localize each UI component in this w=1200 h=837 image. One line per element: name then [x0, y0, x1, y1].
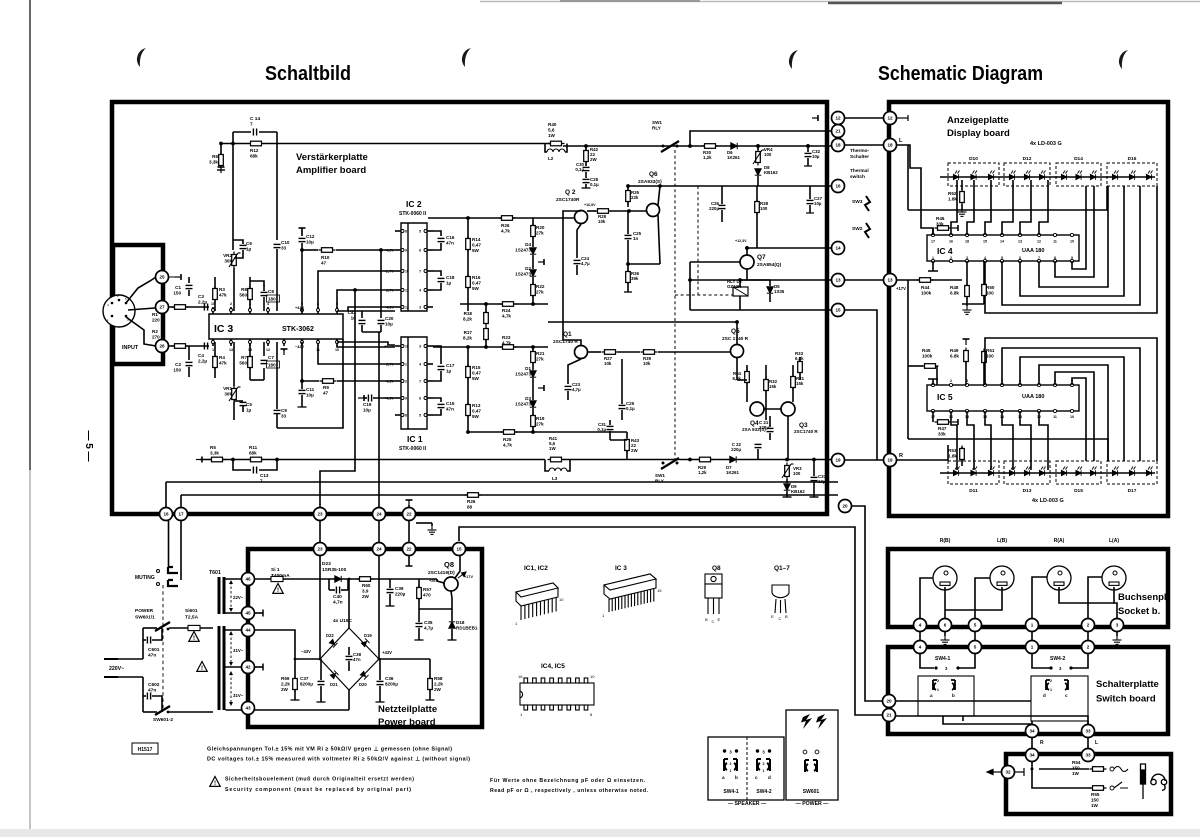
wire C40 left [328, 579, 330, 590]
junction [300, 379, 304, 383]
wire [587, 210, 596, 212]
resistor R44 [917, 278, 934, 283]
power sw contact [803, 750, 807, 754]
node 12 display [884, 112, 897, 125]
wire [907, 280, 909, 366]
svg-text:1: 1 [405, 363, 407, 367]
svg-text:8: 8 [405, 414, 407, 418]
wire [769, 433, 771, 440]
wire C602 right [152, 696, 162, 712]
svg-text:32: 32 [1005, 770, 1011, 775]
SW4-1 box [918, 676, 974, 716]
svg-text:STK-3062: STK-3062 [282, 326, 314, 333]
capacitor C20 electrolytic [378, 320, 385, 323]
wire [807, 158, 809, 166]
wire [429, 659, 431, 678]
IC4 pin 9 [1070, 259, 1073, 262]
wire [609, 420, 611, 425]
svg-text:5: 5 [974, 645, 977, 650]
LED in D13 [1024, 467, 1030, 476]
LED in D16 [1146, 171, 1152, 180]
node 1 socket [1026, 619, 1039, 632]
node 46 [242, 573, 255, 586]
wire IC5 maze [1002, 348, 1140, 461]
svg-text:R486.8k: R486.8k [950, 285, 959, 296]
svg-text:R(B): R(B) [940, 538, 951, 544]
wire Q7 base [690, 261, 740, 263]
wire to VR2 [232, 144, 234, 251]
potentiometer VR2 [232, 252, 237, 269]
svg-text:4: 4 [984, 256, 986, 260]
film crescent mark 2 [462, 48, 471, 67]
wire [769, 416, 771, 427]
junction [231, 458, 235, 462]
svg-text:Q3: Q3 [799, 422, 808, 429]
svg-text:Q6: Q6 [649, 171, 658, 178]
capacitor C40 [336, 587, 339, 594]
switch board frame [888, 647, 1168, 734]
wire [907, 366, 909, 439]
terminal mid diode 2 [538, 385, 544, 391]
wire DIN to 25 [126, 277, 156, 303]
IC2 pin 12 [395, 306, 401, 308]
switch SW4-1 left [724, 759, 728, 771]
wire C1 top [188, 277, 190, 283]
svg-text:C290,1µ: C290,1µ [626, 401, 635, 411]
svg-text:18: 18 [835, 143, 841, 148]
IC2 pin 12 circle [401, 306, 404, 309]
wire 34 to R54 [1039, 768, 1089, 770]
resistor R51 [982, 349, 987, 366]
svg-text:20: 20 [842, 504, 848, 509]
wire [961, 460, 963, 466]
svg-text:46: 46 [245, 577, 251, 582]
LED in D13 [1039, 467, 1045, 476]
wire rail R5 R11 [200, 459, 545, 461]
node 22 amp bottom [403, 508, 416, 521]
zener D18 [449, 622, 455, 628]
svg-text:B: B [785, 614, 788, 619]
IC2 pin 5 [427, 230, 433, 232]
headphone switch contact R54 [1114, 767, 1128, 772]
IC1 pin 6 circle [424, 397, 427, 400]
wire [348, 661, 350, 671]
node 24 power [373, 543, 386, 556]
wire [467, 218, 469, 238]
transistor Q3 [781, 402, 795, 416]
node 4 switch [914, 641, 927, 654]
wire Q1 collector up [563, 211, 581, 345]
IC5 pin 4 [983, 383, 986, 386]
wire rail 347 [433, 346, 548, 348]
resistor R59 [293, 676, 298, 693]
svg-text:R254,7k: R254,7k [503, 437, 512, 447]
wire to node 24 [378, 332, 380, 508]
wire [532, 427, 534, 432]
wire [627, 186, 629, 190]
LED in D15 [1061, 467, 1067, 476]
svg-text:MUTING: MUTING [135, 575, 155, 581]
wire [792, 388, 794, 402]
node 23 power [314, 543, 327, 556]
svg-text:4: 4 [419, 363, 421, 367]
IC2 pin 7 circle [424, 270, 427, 273]
IC2 pin 6 circle [424, 249, 427, 252]
svg-text:42: 42 [245, 665, 251, 670]
contact dot [768, 749, 771, 752]
LED in D10 [971, 171, 977, 180]
wire [418, 599, 420, 609]
capacitor C39 electrolytic [387, 589, 394, 592]
svg-text:−43V: −43V [301, 649, 311, 654]
junction [584, 144, 588, 148]
wire to SW601-1 [143, 627, 157, 629]
wire IC5 maze [1020, 357, 1124, 461]
wire [919, 631, 921, 641]
svg-text:R531.8k: R531.8k [948, 448, 957, 459]
svg-text:C280,1µ: C280,1µ [590, 177, 599, 187]
headphones icon [1151, 774, 1167, 790]
wire [809, 205, 811, 213]
svg-text:33: 33 [1085, 729, 1091, 734]
svg-text:10: 10 [1070, 240, 1074, 244]
ground R52 [958, 208, 967, 216]
diode D5 [767, 287, 773, 293]
wire long rail 482 [166, 481, 838, 483]
wire IC5 to LED [1039, 411, 1048, 470]
muting switch b [157, 580, 179, 586]
IC1 pin 3 [427, 345, 433, 347]
IC3 pin 6 circle [317, 309, 320, 312]
resistor R46 [935, 226, 952, 231]
IC5 pin 2 [949, 383, 952, 386]
wire [932, 411, 934, 422]
wire junction row [628, 263, 660, 265]
wire [908, 365, 923, 367]
LED group D15 dashed box [1056, 461, 1101, 484]
wire [936, 366, 938, 385]
wire [966, 297, 968, 306]
svg-text:4: 4 [267, 302, 269, 306]
dashed relay control vertical 2 [697, 186, 699, 295]
svg-text:18: 18 [887, 143, 893, 148]
wire [807, 146, 809, 152]
IC2 pin 3 [427, 306, 433, 308]
wire Q2 emitter down [577, 224, 581, 258]
wire [585, 162, 587, 166]
svg-text:2SC1740R: 2SC1740R [556, 197, 580, 203]
wire [757, 146, 759, 150]
wire [263, 368, 265, 380]
wire 15 down [459, 556, 461, 558]
wire [627, 264, 629, 271]
capacitor C11 electrolytic [299, 390, 306, 393]
IC2 pin 10 [395, 270, 401, 272]
wire [585, 184, 587, 188]
resistor R32 [764, 377, 769, 394]
wire rail 186 [628, 185, 831, 187]
wire [626, 451, 628, 460]
svg-text:17: 17 [178, 512, 184, 517]
wire [609, 431, 611, 440]
wire [361, 311, 363, 318]
wire [467, 288, 469, 311]
svg-text:12: 12 [405, 306, 409, 310]
wire VR2 to IC3 [233, 268, 235, 311]
wire [301, 243, 303, 311]
wire L3 right [567, 460, 570, 472]
transformer T601 winding upper [218, 577, 226, 614]
wire DIN to 27 [128, 308, 155, 310]
svg-text:13: 13 [887, 278, 893, 283]
svg-text:SW4-2: SW4-2 [756, 789, 772, 795]
package IC4 IC5 DIP16 [520, 678, 594, 710]
svg-text:!: ! [214, 781, 216, 787]
winding span arrow 31V a [229, 631, 233, 666]
svg-text:Security component (must be re: Security component (must be replaced by … [225, 787, 411, 793]
node 45 [242, 607, 255, 620]
svg-text:R: R [1040, 740, 1044, 746]
IC2 pin 4 circle [424, 289, 427, 292]
wire node19 link [845, 459, 889, 461]
resistor R23 [500, 345, 517, 350]
IC3 pin 10 circle [336, 341, 339, 344]
transistor Q5 [731, 345, 744, 358]
svg-text:!: ! [201, 666, 203, 672]
svg-text:5: 5 [419, 230, 421, 234]
node 18 amp [832, 139, 845, 152]
switch SW601/1 [155, 622, 170, 631]
svg-text:+17V: +17V [896, 286, 906, 291]
wire node15 link down [845, 310, 877, 460]
wire tap to 42 [226, 666, 243, 668]
node 42 [242, 661, 255, 674]
junction [806, 144, 810, 148]
IC U2 STK-0060 body [401, 223, 427, 311]
junction [785, 458, 789, 462]
safety triangle note [210, 777, 220, 788]
wire [765, 391, 767, 420]
wire Q1 emitter down [568, 359, 581, 384]
svg-text:Q1: Q1 [563, 331, 572, 338]
node 16 amp [832, 180, 845, 193]
IC4 pin 18 [965, 233, 968, 236]
contact dot [735, 749, 738, 752]
junction [353, 288, 357, 292]
wire C14 to C10 [276, 132, 278, 240]
wire 33 link [1087, 738, 1089, 748]
node 2 switch [1082, 641, 1095, 654]
terminal IC3 pin 8 [281, 349, 288, 355]
IC3 pin 8 [283, 339, 285, 346]
terminal C12 [299, 228, 306, 234]
svg-text:L(B): L(B) [997, 538, 1007, 544]
capacitor C602 [147, 693, 150, 700]
transistor Q1 [575, 346, 588, 359]
svg-text:Schematic Diagram: Schematic Diagram [878, 63, 1043, 85]
LED in D17 [1146, 467, 1152, 476]
resistor R6 [219, 152, 224, 169]
LED in D16 [1112, 171, 1118, 180]
wire [1087, 631, 1089, 641]
terminal node 25 [175, 274, 181, 280]
svg-text:C1150: C1150 [173, 285, 181, 295]
wire IC3 pin11 to IC1 -2.7V [318, 345, 395, 364]
resistor R24 [500, 302, 517, 307]
svg-text:R3910k: R3910k [643, 356, 652, 366]
wire [348, 647, 350, 655]
IC1 pin 5 circle [424, 414, 427, 417]
junction [738, 278, 742, 282]
wire [587, 351, 601, 353]
svg-text:14: 14 [1000, 240, 1004, 244]
SW4-2 box [1031, 676, 1088, 721]
IC3 pin 2 [230, 307, 232, 314]
wire [585, 172, 587, 178]
capacitor C19 electrolytic [368, 395, 371, 402]
wire L2 left [545, 144, 547, 153]
mains plug prongs [104, 659, 118, 677]
resistor R58 [428, 676, 433, 693]
svg-text:16: 16 [518, 674, 523, 679]
svg-text:18: 18 [965, 240, 969, 244]
node 27 [156, 301, 169, 314]
input shield box [113, 245, 163, 364]
svg-text:VR230k: VR230k [223, 253, 232, 263]
node 4 socket [914, 619, 927, 632]
svg-text:Q7: Q7 [757, 254, 766, 261]
wire [467, 378, 469, 404]
svg-text:1: 1 [730, 769, 732, 773]
terminal R46 [952, 225, 958, 231]
socket board frame [888, 549, 1168, 627]
switch SW4-2 right [766, 759, 770, 771]
wire [276, 342, 278, 409]
LED group D11 dashed box [948, 461, 999, 484]
wire [249, 342, 251, 356]
svg-text:10: 10 [405, 270, 409, 274]
wire [576, 265, 578, 275]
svg-text:34: 34 [1029, 729, 1035, 734]
wire [380, 325, 382, 332]
svg-text:2SC 1740 R: 2SC 1740 R [722, 336, 749, 342]
switch SW1 bottom [661, 458, 679, 469]
capacitor C9 [274, 410, 281, 413]
svg-text:IC 4: IC 4 [937, 246, 953, 256]
svg-text:2: 2 [950, 256, 952, 260]
wire C18 bottom [433, 283, 441, 290]
wire [813, 482, 815, 497]
svg-text:C 22220µ: C 22220µ [731, 442, 741, 452]
wire [974, 631, 976, 641]
svg-text:b: b [735, 775, 738, 780]
wire LED to IC4 pin [1020, 180, 1031, 235]
svg-text:— POWER —: — POWER — [796, 801, 830, 807]
LED in D12 [1024, 171, 1030, 180]
svg-text:180: 180 [268, 363, 276, 368]
IC2 pin 7 [427, 270, 433, 272]
safety triangle Si601 [189, 632, 199, 643]
svg-text:SW601: SW601 [803, 789, 820, 795]
winding span arrow 22V [229, 580, 233, 612]
IC3 pin 12 circle [267, 341, 270, 344]
wire [263, 342, 265, 356]
wire [408, 505, 410, 508]
wire IC3 pin5 to IC2 -2.7V [337, 290, 395, 308]
IC4 pin 4 [983, 259, 986, 262]
IC5 pin 13 [1018, 409, 1021, 412]
wire [765, 365, 767, 379]
wire rail left [222, 143, 249, 145]
svg-text:33: 33 [1085, 753, 1091, 758]
wire R28 to Q6 [610, 210, 647, 212]
svg-text:10: 10 [1070, 415, 1074, 419]
wire rail to IC1 [337, 342, 395, 345]
wire [746, 383, 748, 402]
wire [532, 218, 534, 226]
LED in D17 [1112, 467, 1118, 476]
node 12 amp [832, 112, 845, 125]
resistor R30 [702, 144, 719, 149]
resistor R41 [548, 457, 565, 462]
wire [983, 363, 985, 385]
wire [532, 296, 534, 304]
wire SW4-2 to 33 [1087, 721, 1089, 724]
node 3 socket [1111, 619, 1124, 632]
svg-text:Gleichspannungen Tol.± 15% mit: Gleichspannungen Tol.± 15% mit VM Ri ≥ 5… [207, 747, 452, 753]
svg-text:D17: D17 [1128, 488, 1137, 494]
IC1 pin 6 [427, 397, 433, 399]
IC4 pin 10 [1070, 233, 1073, 236]
svg-text:d: d [1043, 693, 1046, 698]
wire 1 to SW4-2 [1032, 654, 1051, 668]
wire DIN to 26 [126, 317, 156, 346]
wire LED to IC4 pin [1039, 180, 1048, 235]
resistor R4 [213, 354, 218, 371]
resistor R9 [320, 379, 337, 384]
diode D1 [530, 371, 536, 377]
IC4 pin 14 [1000, 233, 1003, 236]
junction [300, 248, 304, 252]
wire SW601-2 to T601 [169, 711, 213, 713]
svg-text:C2010µ: C2010µ [385, 316, 394, 326]
transistor Q7 [740, 255, 754, 269]
ground node 6 [941, 636, 950, 644]
junction [756, 144, 760, 148]
LED group D13 dashed box [1004, 461, 1050, 484]
wire rail 310 to 15 [690, 309, 831, 311]
LED group D12 dashed box [1004, 163, 1050, 186]
svg-text:2SA854(Q): 2SA854(Q) [757, 262, 782, 268]
IC1 pin 1 circle [401, 363, 404, 366]
wire IC4 maze [1002, 186, 1140, 305]
capacitor C35 electrolytic [416, 623, 423, 626]
svg-text:Q8: Q8 [444, 560, 454, 569]
svg-text:10: 10 [559, 597, 564, 602]
svg-text:SW601-2: SW601-2 [153, 717, 173, 723]
svg-text:C2150: C2150 [173, 362, 181, 372]
node 44 [242, 624, 255, 637]
svg-text:14: 14 [835, 246, 841, 251]
svg-text:1: 1 [937, 688, 939, 692]
wire rail 460 right [563, 459, 831, 461]
transistor Q2 [575, 211, 588, 224]
svg-text:C8: C8 [268, 289, 274, 294]
svg-text:C300,1µ: C300,1µ [575, 162, 584, 172]
wire 44 to R59 [255, 630, 295, 678]
wire [1116, 631, 1118, 636]
LED in D10 [953, 171, 959, 180]
